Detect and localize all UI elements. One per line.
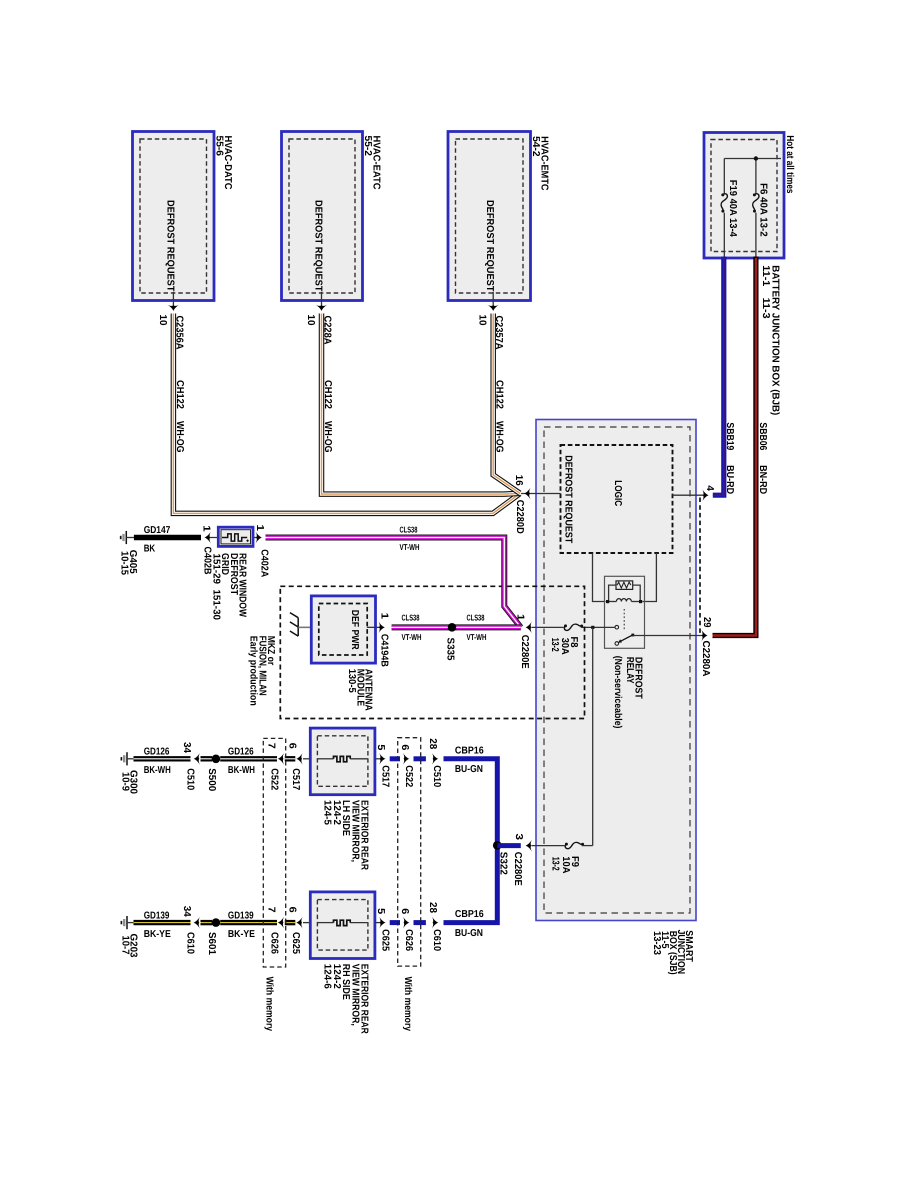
svg-text:BU-RD: BU-RD bbox=[724, 465, 735, 494]
wire LOGIC to relay coil (right) bbox=[643, 553, 657, 602]
svg-text:SBB19: SBB19 bbox=[724, 422, 735, 450]
svg-text:34: 34 bbox=[181, 742, 192, 753]
wire label CH122 WH-OG (HVAC-EMTC branch) bbox=[494, 380, 505, 453]
svg-text:GD139: GD139 bbox=[228, 910, 254, 921]
svg-text:GD147: GD147 bbox=[144, 525, 171, 536]
arrow pin 28 connector C610 bbox=[427, 902, 442, 952]
pin 10 connector C2357A of HVAC-EMTC bbox=[477, 292, 505, 350]
label Hot at all times bbox=[784, 135, 795, 193]
component REAR WINDOW DEFROST GRID bbox=[210, 527, 257, 546]
wire BJB internal bus bbox=[724, 159, 781, 194]
svg-text:4: 4 bbox=[704, 485, 715, 491]
svg-text:13-23: 13-23 bbox=[651, 931, 662, 955]
wire CBP16 BU-GN RH mirror to S322 bbox=[444, 845, 498, 922]
label EXTERIOR REAR VIEW MIRROR, LH SIDE bbox=[322, 800, 370, 871]
junction bus dot bbox=[754, 156, 758, 160]
svg-text:S500: S500 bbox=[206, 768, 217, 791]
ground G405 10-15 bbox=[119, 531, 138, 576]
arrow pin 6 connector C522 bbox=[399, 744, 414, 787]
wire CBP16 jumper 2 (blue) bbox=[414, 756, 426, 761]
wire label CLS38 VT-WH (antenna run right) bbox=[467, 613, 487, 643]
label DEFROST RELAY (Non-serviceable) bbox=[612, 656, 644, 729]
svg-text:F19 40A 13-4: F19 40A 13-4 bbox=[727, 180, 738, 237]
wire CH122 WH-OG from HVAC-DATC to C2280D junction bbox=[173, 314, 519, 514]
svg-text:DEFROST REQUEST: DEFROST REQUEST bbox=[164, 200, 175, 292]
svg-text:CLS38: CLS38 bbox=[467, 613, 485, 623]
wire label CH122 WH-OG (HVAC-DATC branch) bbox=[174, 380, 185, 453]
wire label GD126 BK-WH bbox=[144, 747, 171, 777]
arrow pin 1 connector C402A bbox=[254, 525, 269, 578]
svg-text:DEFROST REQUEST: DEFROST REQUEST bbox=[563, 455, 574, 543]
svg-text:6: 6 bbox=[399, 744, 410, 750]
svg-text:DEFROST REQUEST: DEFROST REQUEST bbox=[484, 200, 495, 291]
component Battery Junction Box (BJB) Hot at all times bbox=[704, 133, 784, 259]
wire F8 node to F9 (internal SJB) bbox=[592, 627, 594, 845]
wire label SBB19 BU-RD bbox=[724, 422, 735, 494]
svg-text:C522: C522 bbox=[403, 765, 414, 787]
svg-text:6: 6 bbox=[287, 743, 298, 749]
junction relay/F9 branch bbox=[591, 626, 594, 629]
fuse F6 40A 13-2 bbox=[753, 183, 769, 257]
svg-text:VT-WH: VT-WH bbox=[400, 542, 420, 552]
svg-text:16: 16 bbox=[513, 475, 524, 486]
svg-text:S335: S335 bbox=[445, 638, 456, 661]
svg-text:LOGIC: LOGIC bbox=[612, 480, 623, 506]
wire CLS38 VT-WH from antenna module to C2280E bbox=[392, 624, 521, 630]
svg-text:11-3: 11-3 bbox=[760, 298, 771, 319]
label pin 1 connector C2280E bbox=[515, 614, 531, 669]
svg-text:C626: C626 bbox=[403, 929, 414, 951]
svg-text:C2280E: C2280E bbox=[519, 635, 530, 669]
splice S322 bbox=[493, 841, 521, 850]
svg-text:124-5: 124-5 bbox=[322, 800, 333, 825]
arrow pin 6 connector C626 bbox=[399, 908, 414, 951]
label pin 29 connector C2280A bbox=[700, 617, 712, 677]
svg-text:151-29 151-30: 151-29 151-30 bbox=[210, 554, 221, 621]
svg-text:BK-YE: BK-YE bbox=[144, 929, 171, 940]
svg-text:34: 34 bbox=[181, 906, 192, 917]
fuse F8 30A 13-2 bbox=[532, 624, 615, 655]
svg-text:SBB06: SBB06 bbox=[757, 422, 768, 450]
ground G203 10-7 bbox=[119, 916, 138, 958]
label REAR WINDOW DEFROST GRID 151-29 151-30 bbox=[210, 553, 247, 620]
svg-text:10-9: 10-9 bbox=[119, 772, 130, 791]
svg-text:GD126: GD126 bbox=[228, 747, 254, 758]
splice S335 bbox=[445, 623, 457, 661]
svg-text:28: 28 bbox=[427, 902, 438, 913]
svg-text:With memory: With memory bbox=[264, 977, 275, 1032]
svg-text:C522: C522 bbox=[269, 768, 280, 790]
svg-text:Hot at all times: Hot at all times bbox=[784, 135, 795, 193]
wire GD139 BK-YE splice to mirror bbox=[220, 920, 277, 925]
wire LOGIC power feed pin 4 bbox=[673, 489, 709, 501]
svg-text:10: 10 bbox=[305, 315, 316, 326]
label SMART JUNCTION BOX (SJB) 11-5 13-23 bbox=[651, 930, 694, 975]
component HVAC-EATC DEFROST REQUEST box bbox=[282, 132, 363, 301]
label EXTERIOR REAR VIEW MIRROR, RH SIDE bbox=[322, 964, 370, 1035]
svg-text:5: 5 bbox=[375, 744, 386, 750]
svg-text:C517: C517 bbox=[290, 768, 301, 790]
component Smart Junction Box (SJB) bbox=[536, 420, 696, 921]
svg-text:6: 6 bbox=[287, 907, 298, 913]
label pin 16 connector C2280D bbox=[513, 475, 525, 534]
svg-text:28: 28 bbox=[427, 738, 438, 749]
wire antenna module output pin 1 C4194B bbox=[367, 613, 390, 667]
ground G300 10-9 bbox=[119, 752, 138, 794]
arrow pin 6 connector C517 bbox=[287, 743, 303, 791]
wire LOGIC to relay coil (left) bbox=[593, 553, 606, 602]
svg-text:Early production: Early production bbox=[248, 636, 259, 706]
component EXTERIOR REAR VIEW MIRROR, LH SIDE heater bbox=[310, 728, 375, 795]
svg-text:C625: C625 bbox=[379, 929, 390, 951]
svg-text:7: 7 bbox=[266, 743, 277, 749]
wire GD126 BK-WH splice to mirror bbox=[220, 756, 277, 761]
label ANTENNA MODULE 130-5 bbox=[346, 669, 373, 711]
antenna ground symbol bbox=[290, 613, 298, 637]
wire CH122 WH-OG from HVAC-EATC to C2280D junction bbox=[322, 314, 520, 495]
wire GD126 BK-WH ground lead bbox=[134, 756, 191, 761]
svg-text:13-2: 13-2 bbox=[549, 638, 560, 652]
splice S601 bbox=[201, 918, 221, 955]
svg-text:C402A: C402A bbox=[259, 549, 270, 577]
svg-text:C2280A: C2280A bbox=[700, 641, 711, 677]
svg-text:BATTERY JUNCTION BOX (BJB): BATTERY JUNCTION BOX (BJB) bbox=[769, 265, 780, 415]
wire connector jumper bbox=[285, 756, 296, 761]
svg-text:C4194B: C4194B bbox=[379, 634, 390, 667]
component HVAC-DATC DEFROST REQUEST box bbox=[133, 132, 215, 301]
arrow pin 7 connector C522 bbox=[266, 743, 285, 791]
component HVAC-EMTC DEFROST REQUEST box bbox=[448, 132, 531, 301]
wire label CLS38 VT-WH (grid run) bbox=[400, 524, 420, 552]
svg-text:BU-GN: BU-GN bbox=[455, 764, 483, 775]
svg-text:10-15: 10-15 bbox=[119, 551, 130, 575]
wire CH122 WH-OG from HVAC-EMTC to C2280D junction bbox=[493, 314, 520, 494]
arrow pin 1 connector C402B bbox=[200, 525, 212, 574]
svg-text:5: 5 bbox=[375, 908, 386, 914]
svg-text:C2280D: C2280D bbox=[514, 500, 525, 534]
svg-text:C626: C626 bbox=[269, 932, 280, 954]
wire CBP16 jumper (blue) bbox=[390, 756, 400, 761]
wire connector jumper bbox=[285, 920, 296, 925]
svg-text:130-5: 130-5 bbox=[346, 669, 357, 693]
svg-text:1: 1 bbox=[254, 525, 265, 532]
splice S500 bbox=[201, 755, 221, 792]
wire GD147 BK ground lead bbox=[134, 535, 201, 540]
svg-text:S601: S601 bbox=[206, 932, 217, 955]
svg-text:10-7: 10-7 bbox=[119, 936, 130, 955]
wire SBB06 BN-RD from BJB F6 to SJB pin 29 bbox=[713, 257, 756, 636]
svg-text:CLS38: CLS38 bbox=[402, 613, 420, 623]
svg-text:With memory: With memory bbox=[402, 977, 413, 1032]
pin 10 connector C2356A of HVAC-DATC bbox=[157, 292, 185, 350]
svg-text:C510: C510 bbox=[431, 765, 442, 787]
boundary With memory (right connectors) bbox=[398, 738, 421, 1032]
svg-text:3: 3 bbox=[513, 834, 524, 841]
arrow pin 28 connector C510 bbox=[427, 738, 442, 788]
label HVAC-EATC page ref bbox=[362, 136, 382, 190]
fuse F9 10A 13-2 bbox=[532, 842, 593, 873]
fuse F19 40A 13-4 bbox=[721, 180, 738, 257]
svg-text:1: 1 bbox=[200, 525, 211, 532]
svg-text:CBP16: CBP16 bbox=[455, 745, 484, 756]
label HVAC-DATC page ref bbox=[214, 136, 234, 190]
arrow pin 34 connector C610 bbox=[181, 906, 200, 955]
svg-text:DEFROST REQUEST: DEFROST REQUEST bbox=[312, 200, 323, 292]
arrow pin 6 connector C625 bbox=[287, 907, 303, 955]
wire label GD126 BK-WH (second) bbox=[228, 747, 255, 777]
svg-text:RELAY: RELAY bbox=[624, 657, 635, 684]
svg-text:VT-WH: VT-WH bbox=[467, 632, 487, 642]
wire relay output to pin 29 C2280A bbox=[633, 629, 708, 641]
connector C2280 boundary dashed line bbox=[699, 498, 701, 634]
svg-text:CBP16: CBP16 bbox=[455, 909, 484, 920]
svg-text:BK: BK bbox=[144, 544, 156, 555]
label pin 3 connector C2280E S322 bbox=[498, 834, 525, 887]
label MKZ or FUSION, MILAN Early production bbox=[248, 636, 276, 706]
wire label GD139 BK-YE bbox=[144, 910, 171, 940]
svg-text:CLS38: CLS38 bbox=[400, 524, 418, 534]
wire SBB19 BU-RD from BJB F19 to SJB pin 4 bbox=[713, 257, 724, 496]
component ANTENNA MODULE DEF PWR bbox=[311, 596, 375, 663]
wire label CLS38 VT-WH (antenna run left) bbox=[402, 613, 422, 643]
svg-text:GD139: GD139 bbox=[144, 910, 170, 921]
svg-text:GD126: GD126 bbox=[144, 747, 170, 758]
boundary With memory (left connectors) bbox=[263, 738, 285, 1031]
svg-text:54-2: 54-2 bbox=[530, 136, 541, 157]
svg-text:F6 40A 13-2: F6 40A 13-2 bbox=[757, 183, 768, 237]
wire label CBP16 BU-GN bbox=[455, 745, 484, 775]
svg-text:C510: C510 bbox=[185, 768, 196, 790]
wire defrost request input to LOGIC pin 16 bbox=[521, 487, 561, 499]
wire into mirror bbox=[303, 758, 318, 760]
arrow pin 5 connector C517 bbox=[375, 744, 390, 787]
pin 10 connector C228A of HVAC-EATC bbox=[305, 292, 333, 345]
svg-text:10A: 10A bbox=[560, 856, 571, 873]
component LOGIC block inside SJB bbox=[561, 445, 673, 553]
wire CBP16 BU-GN LH mirror to S322 bbox=[444, 759, 498, 846]
svg-text:BK-WH: BK-WH bbox=[144, 765, 171, 776]
label DEFROST REQUEST (SJB input) bbox=[563, 455, 574, 543]
wire label CH122 WH-OG (HVAC-EATC branch) bbox=[322, 380, 333, 453]
svg-text:1: 1 bbox=[378, 613, 389, 620]
svg-text:BU-GN: BU-GN bbox=[455, 928, 483, 939]
label BATTERY JUNCTION BOX (BJB) 11-1 11-3 bbox=[760, 265, 781, 415]
svg-text:10: 10 bbox=[157, 315, 168, 326]
svg-text:29: 29 bbox=[701, 617, 712, 628]
arrow pin 1 C2280E bbox=[526, 621, 532, 633]
arrow pin 7 connector C626 bbox=[266, 907, 285, 955]
svg-text:DEF PWR: DEF PWR bbox=[349, 610, 360, 651]
wire label GD147 BK bbox=[144, 525, 171, 555]
svg-text:55-6: 55-6 bbox=[214, 136, 225, 157]
svg-text:C610: C610 bbox=[431, 929, 442, 951]
svg-text:7: 7 bbox=[266, 907, 277, 913]
svg-text:C610: C610 bbox=[185, 932, 196, 954]
svg-text:BN-RD: BN-RD bbox=[757, 465, 768, 494]
component EXTERIOR REAR VIEW MIRROR, RH SIDE heater bbox=[310, 892, 375, 959]
wire into mirror bbox=[303, 922, 318, 924]
wire CLS38 VT-WH from grid C402A to S335/C2280E bbox=[266, 538, 521, 628]
svg-text:VT-WH: VT-WH bbox=[402, 632, 422, 642]
svg-text:10: 10 bbox=[477, 315, 488, 326]
svg-text:BK-WH: BK-WH bbox=[228, 765, 255, 776]
arrow pin 5 connector C625 bbox=[375, 908, 390, 951]
wire CBP16 jumper 2 (blue) bbox=[414, 920, 426, 925]
wire CBP16 jumper (blue) bbox=[390, 920, 400, 925]
label pin 4 bbox=[704, 485, 715, 491]
svg-text:124-6: 124-6 bbox=[322, 964, 333, 989]
arrow pin 34 connector C510 bbox=[181, 742, 200, 791]
svg-text:BK-YE: BK-YE bbox=[228, 929, 255, 940]
svg-text:C625: C625 bbox=[290, 932, 301, 954]
arrow pin 3 C2280E bbox=[526, 840, 532, 852]
wire label CBP16 BU-GN bbox=[455, 909, 484, 939]
svg-text:55-2: 55-2 bbox=[362, 136, 373, 157]
boundary MKZ or FUSION, MILAN Early production (dashed) bbox=[280, 586, 584, 718]
svg-text:(Non-serviceable): (Non-serviceable) bbox=[612, 656, 623, 729]
svg-text:C2280E: C2280E bbox=[512, 852, 523, 886]
wire GD139 BK-YE ground lead bbox=[134, 920, 191, 925]
svg-text:13-2: 13-2 bbox=[550, 857, 561, 871]
wire antenna module ground lead bbox=[298, 626, 311, 628]
wire label GD139 BK-YE (second) bbox=[228, 910, 255, 940]
svg-text:6: 6 bbox=[399, 908, 410, 914]
label HVAC-EMTC page ref bbox=[530, 136, 550, 191]
relay DEFROST RELAY (Non-serviceable) bbox=[605, 576, 645, 648]
wire label SBB06 BN-RD bbox=[757, 422, 768, 494]
svg-text:11-1: 11-1 bbox=[760, 265, 771, 286]
svg-text:C517: C517 bbox=[379, 765, 390, 787]
